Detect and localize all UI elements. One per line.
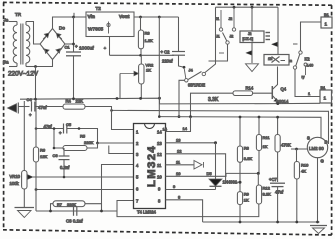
svg-text:J4: J4 xyxy=(189,68,194,73)
microphone MIC xyxy=(8,103,30,114)
junction dot 240,222 xyxy=(239,221,242,224)
svg-text:8: 8 xyxy=(178,195,181,200)
svg-text:+ C2: + C2 xyxy=(161,50,171,55)
terminal Ja xyxy=(4,18,18,23)
ground G3 xyxy=(310,226,327,234)
wire R13 xyxy=(277,117,279,182)
resistor R9 1K xyxy=(237,192,249,205)
rail D (to FET drain) xyxy=(112,110,329,144)
svg-text:12K: 12K xyxy=(40,154,47,159)
arrow mark A2 xyxy=(246,51,252,56)
wire pin6 xyxy=(36,189,134,191)
ground G2 xyxy=(15,208,35,218)
svg-text:G: G xyxy=(321,159,324,164)
svg-text:12: 12 xyxy=(177,149,182,154)
svg-text:220K: 220K xyxy=(84,140,94,145)
junction dot 159,116.5 xyxy=(158,115,161,118)
svg-text:470K: 470K xyxy=(281,143,291,148)
svg-text:9: 9 xyxy=(173,184,176,189)
svg-text:R11: R11 xyxy=(263,135,271,140)
wire pin3 xyxy=(109,146,134,154)
capacitor C4 47uf xyxy=(27,97,48,118)
svg-text:3.3K: 3.3K xyxy=(244,156,253,161)
junction at 35.5,66.5 xyxy=(34,65,37,68)
wire switch left down xyxy=(179,80,185,116)
svg-text:11: 11 xyxy=(176,160,181,165)
wire rail to K1 xyxy=(251,7,253,31)
svg-text:R5: R5 xyxy=(80,134,86,139)
svg-text:ry: ry xyxy=(302,75,305,79)
svg-text:3.3K: 3.3K xyxy=(208,97,219,103)
svg-text:+: + xyxy=(75,44,78,49)
capacitor C7 47uf xyxy=(269,177,285,195)
junction dot 111.5,110.4 xyxy=(110,109,113,112)
svg-text:1: 1 xyxy=(325,22,328,27)
wire FET gate down xyxy=(317,158,319,222)
transformer TR xyxy=(13,12,30,67)
junction dot 277.6,116.5 xyxy=(276,116,279,119)
svg-text:R3: R3 xyxy=(145,31,151,36)
diode D5 1N4001 xyxy=(207,143,238,190)
wire K2 to B1 xyxy=(301,22,322,51)
resistor R13 470K xyxy=(275,135,291,153)
svg-text:B1: B1 xyxy=(321,85,327,90)
wire R11 xyxy=(258,117,260,173)
svg-text:9B'1RDE: 9B'1RDE xyxy=(188,83,205,88)
svg-text:D: D xyxy=(325,140,328,145)
svg-text:C1: C1 xyxy=(65,45,71,50)
junction dot 296.5,149 xyxy=(295,148,298,151)
junction dot 259,116.5 xyxy=(258,116,261,119)
svg-text:+C7: +C7 xyxy=(269,177,277,182)
wire transformer minus down to rail xyxy=(35,67,37,100)
svg-text:[CZ-1]: [CZ-1] xyxy=(243,37,254,41)
switch S1 xyxy=(184,69,205,88)
resistor R14 3.3K xyxy=(208,85,254,103)
junction dot 101.5,211 xyxy=(100,210,103,213)
svg-text:D5: D5 xyxy=(207,171,213,176)
junction dot 140.5,55.3 xyxy=(139,54,142,57)
junction dot 159,17 xyxy=(158,16,161,19)
junction dot 184,67.3 xyxy=(183,66,186,69)
terminal Ba xyxy=(3,60,17,67)
svg-text:R6: R6 xyxy=(40,148,46,153)
switch K2 xyxy=(289,51,314,79)
svg-text:C4: C4 xyxy=(27,97,33,102)
wire K1 to ground xyxy=(251,43,253,64)
junction dot 215.5,142.8 xyxy=(214,141,217,144)
wire pin9 xyxy=(166,189,216,191)
switch pole K1 xyxy=(209,33,230,62)
wire Vout column xyxy=(158,17,160,117)
wire pin8 xyxy=(166,200,203,222)
svg-text:VR10: VR10 xyxy=(10,174,21,179)
svg-text:T2: T2 xyxy=(96,6,102,11)
node tick a xyxy=(73,13,75,17)
svg-text:Do: Do xyxy=(59,26,65,31)
transistor Q4 D9014 xyxy=(272,83,289,104)
resistor R11 1K xyxy=(256,135,270,151)
wire secondary top to bridge xyxy=(26,22,40,45)
svg-text:4K: 4K xyxy=(301,169,306,174)
junction dot 257.6,173.4 xyxy=(257,172,260,175)
wire R14 left to bus xyxy=(191,93,234,117)
ground G1 xyxy=(246,64,259,72)
svg-text:LM2 90: LM2 90 xyxy=(309,146,324,151)
junction dots rail A xyxy=(34,98,37,101)
wire bridge bottom corner xyxy=(36,60,53,67)
regulator U1 W7805 xyxy=(86,6,134,37)
svg-text:m: m xyxy=(289,59,292,63)
svg-text:+: + xyxy=(104,46,107,51)
wire pin13 xyxy=(166,142,216,144)
svg-text:R12: R12 xyxy=(263,186,271,191)
capacitor C1 1000uf xyxy=(65,44,95,56)
capacitor C6 0.2uf xyxy=(53,148,71,177)
wire R8 xyxy=(239,117,241,192)
svg-text:C8 0.1uf: C8 0.1uf xyxy=(66,219,83,224)
svg-text:R10: R10 xyxy=(301,163,309,168)
svg-text:Ba: Ba xyxy=(3,60,9,65)
svg-text:10: 10 xyxy=(176,171,181,176)
resistor R3 2K xyxy=(138,30,153,49)
svg-text:K2: K2 xyxy=(305,57,311,62)
svg-text:T4 LM324: T4 LM324 xyxy=(137,210,157,215)
capacitor C2 220uf xyxy=(161,50,186,64)
wire W7805 gnd down xyxy=(109,37,111,56)
junction dot 97.5,143 xyxy=(96,142,99,145)
svg-text:1N: 1N xyxy=(268,57,273,61)
supply bus Vcc xyxy=(159,117,321,138)
svg-text:22K: 22K xyxy=(76,99,84,104)
svg-text:1000uf: 1000uf xyxy=(79,46,94,52)
svg-text:1: 1 xyxy=(324,96,327,101)
main rail A (common) xyxy=(20,98,320,104)
FET B3 (mic cell) xyxy=(307,136,328,164)
resistor R8 3.3K xyxy=(237,146,252,163)
connector B2 xyxy=(320,85,332,103)
svg-text:Q4: Q4 xyxy=(281,87,287,92)
potentiometer VR2 1K xyxy=(120,63,154,99)
svg-text:J2: J2 xyxy=(248,32,252,36)
svg-text:1N4001: 1N4001 xyxy=(223,180,238,185)
svg-text:1.2K: 1.2K xyxy=(145,38,154,43)
wire Vout to R3 xyxy=(140,17,143,55)
svg-text:Ja: Ja xyxy=(4,18,9,23)
wire bridge plus to Vin rail xyxy=(53,17,87,29)
junction dot 240,116.5 xyxy=(239,116,242,119)
junction dot 317.5,222 xyxy=(316,221,319,224)
resistor R6 12K xyxy=(33,147,47,162)
svg-text:1: 1 xyxy=(308,91,311,96)
svg-text:R9: R9 xyxy=(244,192,250,197)
svg-text:J1: J1 xyxy=(216,35,220,39)
wire pin10 xyxy=(166,173,258,176)
svg-text:47uf: 47uf xyxy=(38,105,47,110)
junction dot 50.5,211 xyxy=(49,210,52,213)
arrow mark A1 xyxy=(272,42,278,47)
svg-text:220K: 220K xyxy=(67,203,76,207)
wire K2 to B2 xyxy=(295,69,320,96)
svg-text:100k: 100k xyxy=(10,181,20,186)
svg-text:1K: 1K xyxy=(146,68,151,73)
wire C7 bottom xyxy=(277,187,279,222)
svg-text:R4: R4 xyxy=(66,99,72,104)
wire R7/C8 parallel xyxy=(51,204,102,211)
wire Vout rail xyxy=(134,16,179,18)
junction dot 54,148 xyxy=(53,147,56,150)
svg-text:C6: C6 xyxy=(53,153,59,158)
wire pin14 xyxy=(166,117,191,132)
bottom rail xyxy=(203,221,320,223)
connector B1 xyxy=(321,12,332,28)
svg-text:Vin: Vin xyxy=(88,14,95,20)
wire bridge right corner xyxy=(65,43,74,45)
junction dot 239.6,182.2 xyxy=(239,181,242,184)
svg-text:13: 13 xyxy=(176,138,181,143)
wire C5 line xyxy=(36,129,98,144)
wire FET source line xyxy=(291,148,307,150)
resistor R4 22K xyxy=(63,99,85,110)
relay K1 coil box xyxy=(240,31,270,43)
svg-text:Vout: Vout xyxy=(119,14,130,20)
wire C4 to R4 xyxy=(35,106,63,108)
svg-text:+: + xyxy=(59,131,62,136)
svg-text:B1: B1 xyxy=(324,12,330,17)
wire R5 loop xyxy=(54,129,98,149)
svg-text:1K: 1K xyxy=(244,198,249,203)
wire pin7 xyxy=(117,201,259,217)
wire R4 to pin1 xyxy=(85,107,134,130)
wire top rail corner down xyxy=(277,7,279,55)
wire pin2 xyxy=(98,142,134,144)
resistor R5 220K xyxy=(63,134,94,151)
top rail right xyxy=(216,6,279,8)
svg-text:+: + xyxy=(29,113,32,118)
resistor R12 8.2K xyxy=(256,185,271,204)
gnd glyph pin11 xyxy=(194,161,204,170)
wire left bus x36 xyxy=(35,100,37,211)
svg-text:140: 140 xyxy=(307,63,314,68)
wire Vout down through C2 xyxy=(179,17,185,67)
svg-text:14: 14 xyxy=(163,127,168,132)
junction dot 36,128.5 xyxy=(35,127,38,130)
wire pin4 xyxy=(102,165,134,212)
rail y55 xyxy=(110,54,175,56)
wire pin5 (VR10 wiper) xyxy=(33,176,134,178)
wire pin11 xyxy=(166,164,194,166)
resistor R10 4K xyxy=(294,162,309,180)
wire R10 xyxy=(296,149,298,222)
svg-text:1K: 1K xyxy=(263,144,268,149)
resistor R7 220K xyxy=(53,201,85,207)
svg-text:R8: R8 xyxy=(244,146,250,151)
svg-text:TR: TR xyxy=(15,12,22,17)
potentiometer VR10 100k xyxy=(10,101,34,207)
wire R12 top xyxy=(257,173,259,185)
svg-text:W7805: W7805 xyxy=(88,27,104,33)
svg-text:J2: J2 xyxy=(230,35,234,39)
minus mark xyxy=(293,43,298,45)
junction dot 79,128.5 xyxy=(78,127,81,130)
svg-text:220uf: 220uf xyxy=(162,59,173,64)
capacitor C8 0.1uf xyxy=(66,207,83,224)
wire switch right up xyxy=(205,7,216,72)
svg-text:47uf: 47uf xyxy=(275,190,284,195)
svg-text:0.2uf: 0.2uf xyxy=(60,165,70,170)
svg-text:14: 14 xyxy=(183,126,188,131)
wire plus column down xyxy=(73,17,75,52)
svg-text:S: S xyxy=(307,136,310,141)
junction dot 234,7.2 xyxy=(233,6,236,9)
svg-text:R14: R14 xyxy=(246,85,254,90)
relay contact J1 xyxy=(216,10,223,39)
svg-text:8.2K: 8.2K xyxy=(263,192,272,197)
junction dot 140.5,17 xyxy=(139,16,142,19)
op-amp U2 LM324 xyxy=(134,124,166,209)
junction dot 296.8,222 xyxy=(295,221,298,224)
junction dot at 73.5,17 xyxy=(72,16,75,19)
junction dot 190.5,116.5 xyxy=(189,115,192,118)
svg-text:220V~12V: 220V~12V xyxy=(8,71,39,78)
junction dot at 73.5,44 xyxy=(72,43,75,46)
wire C1 down to rail xyxy=(73,56,75,99)
wire K2 down to Q4 xyxy=(277,67,279,84)
junction dot 277.6,222 xyxy=(276,221,279,224)
svg-text:R7: R7 xyxy=(57,203,62,207)
wire R14 to Q4 base xyxy=(253,92,273,94)
bridge rectifier D0 xyxy=(40,26,65,60)
junction dot 36,189.5 xyxy=(35,188,38,191)
wire R9 bottom xyxy=(239,205,241,222)
svg-text:J2: J2 xyxy=(229,17,233,21)
capacitor C5 47uf xyxy=(44,122,72,136)
junction dot 64,177 xyxy=(63,176,66,179)
wire pin12 xyxy=(166,154,240,182)
wire secondary bottom xyxy=(26,66,36,68)
junction dot 54,128.5 xyxy=(53,127,56,130)
relay contact J2 xyxy=(229,7,236,38)
svg-text:LM324: LM324 xyxy=(146,145,158,187)
relay K2 coil box xyxy=(264,55,289,66)
junction dot 252,7.2 xyxy=(251,6,254,9)
wire VR2 xyxy=(140,55,142,98)
svg-text:J1: J1 xyxy=(216,17,220,21)
